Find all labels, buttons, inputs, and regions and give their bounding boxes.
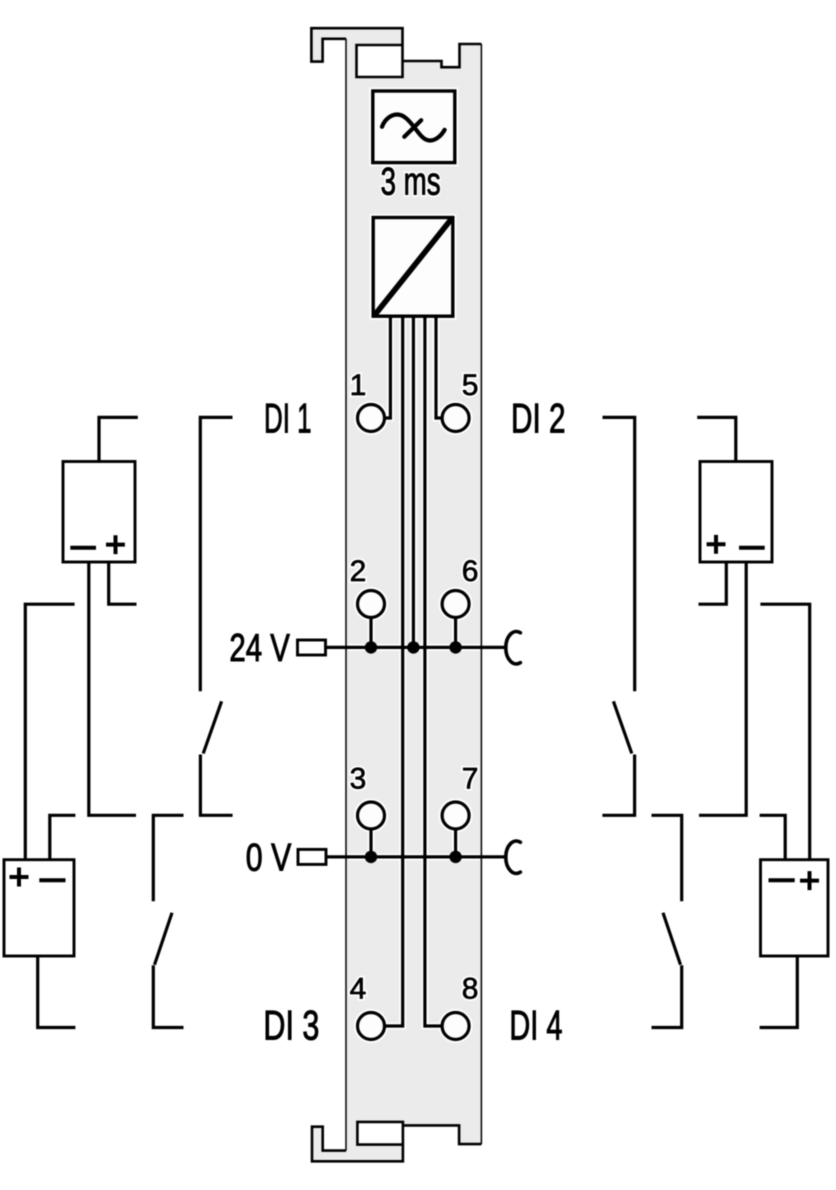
wire: isolation box to 24V rail junction xyxy=(412,315,415,647)
0V terminal box xyxy=(298,849,326,864)
junction dot on 24V rail xyxy=(449,641,461,653)
wire: isolation box to contact 8 xyxy=(425,315,442,1026)
contact point 5 xyxy=(442,405,469,432)
battery B3 (right upper supply) xyxy=(700,462,772,563)
svg-text:7: 7 xyxy=(462,763,479,796)
svg-text:4: 4 xyxy=(350,973,367,1006)
svg-text:DI 1: DI 1 xyxy=(264,394,312,441)
wire: DI1 switch branch upper xyxy=(200,417,232,691)
wire: B2 bottom to DI3-row stub xyxy=(38,956,76,1028)
svg-text:DI 2: DI 2 xyxy=(511,394,566,441)
battery B3 plus sign xyxy=(707,535,726,554)
filter box (input filter icon) xyxy=(373,91,455,163)
contact point 8 xyxy=(442,1013,469,1040)
wire: B3 minus down to 0V-row stub xyxy=(699,562,746,815)
wire: DI1 switch branch lower xyxy=(200,755,232,816)
battery B1 plus sign xyxy=(106,535,125,554)
module body (DIN-rail I/O module outline, gray strip) xyxy=(311,28,481,1161)
contact point 6 xyxy=(442,591,469,618)
battery B2 plus sign xyxy=(10,868,29,887)
wire: left DI1 stub to battery B1 plus terminal xyxy=(99,417,138,461)
battery B2 minus sign xyxy=(39,878,65,882)
module top contour (DIN-rail latch profile) xyxy=(311,28,481,77)
module left edge xyxy=(345,39,347,1151)
24V rail open socket arc xyxy=(506,632,521,664)
wire casings (white halo around wires on gray strip) xyxy=(385,315,390,418)
wire: isolation box to contact 1 xyxy=(385,315,390,418)
module bottom contour (DIN-rail latch profile) xyxy=(312,1122,481,1161)
svg-text:3 ms: 3 ms xyxy=(381,161,441,204)
wire: DI4 switch branch lower xyxy=(652,965,682,1027)
stub contact 2 to 24V rail xyxy=(369,617,372,648)
svg-text:24 V: 24 V xyxy=(229,627,290,670)
wire: 0V-row stub into B2 top xyxy=(50,815,76,859)
filter slash stroke xyxy=(404,120,421,137)
svg-text:6: 6 xyxy=(462,555,479,588)
wire: right DI2 stub to battery B3 plus terminal xyxy=(697,417,736,461)
module right edge xyxy=(480,44,482,1144)
wire: 0V-row stub into B4 top xyxy=(760,815,786,859)
junction dot on 24V rail xyxy=(365,641,377,653)
switch S2 blade xyxy=(155,913,173,965)
stub contact 7 to 0V rail xyxy=(454,828,457,857)
contact point 4 xyxy=(358,1013,385,1040)
svg-text:5: 5 xyxy=(462,369,479,402)
wire: isolation box to contact 5 xyxy=(436,315,442,418)
battery B3 minus sign xyxy=(739,546,765,550)
24V rail wire xyxy=(326,646,506,649)
stub contact 3 to 0V rail xyxy=(369,828,372,857)
galvanic isolation box U1 xyxy=(373,218,453,317)
wire: B1 plus down to 24V-row stub xyxy=(109,562,137,604)
24V terminal box xyxy=(298,640,326,655)
battery B4 minus sign xyxy=(769,878,795,882)
stub contact 6 to 24V rail xyxy=(454,617,457,648)
filter sine symbol xyxy=(382,114,445,140)
switch S4 blade xyxy=(663,913,681,965)
wire: right long drop to battery B4 xyxy=(760,604,809,860)
wire: DI4 switch branch upper xyxy=(652,815,682,901)
wire: DI3 switch branch upper xyxy=(153,815,183,901)
contact point 1 xyxy=(358,405,385,432)
battery B4 (right lower supply) xyxy=(761,860,829,956)
battery B1 (left upper supply) xyxy=(63,462,135,563)
battery B2 (left lower supply) xyxy=(4,860,74,956)
wire: DI2 switch branch upper xyxy=(603,417,635,691)
wire: left long drop to battery B2 xyxy=(25,604,74,860)
junction dot on 0V rail xyxy=(449,851,461,863)
svg-text:3: 3 xyxy=(350,763,367,796)
wire: B4 bottom to DI4-row stub xyxy=(760,956,798,1028)
0V rail wire xyxy=(326,855,506,858)
wire: DI2 switch branch lower xyxy=(602,755,634,816)
svg-text:2: 2 xyxy=(350,555,367,588)
wire: DI3 switch branch lower xyxy=(153,965,183,1027)
contact point 2 xyxy=(358,591,385,618)
svg-text:0 V: 0 V xyxy=(246,836,291,879)
switch S3 blade xyxy=(613,701,631,753)
isolation diagonal stroke xyxy=(375,219,452,315)
svg-text:8: 8 xyxy=(462,973,479,1006)
wire: isolation box to contact 4 xyxy=(385,315,403,1026)
svg-text:DI 3: DI 3 xyxy=(263,1001,319,1048)
wire: B3 plus down to 24V-row stub xyxy=(699,562,727,604)
battery B4 plus sign xyxy=(800,871,819,890)
svg-text:1: 1 xyxy=(350,369,367,402)
wire: B1 minus down to 0V-row stub xyxy=(89,562,136,815)
contact point 3 xyxy=(358,802,385,829)
0V rail open socket arc xyxy=(506,841,521,873)
junction dot on 0V rail xyxy=(365,851,377,863)
junction dot on 24V rail xyxy=(407,641,419,653)
battery B1 minus sign xyxy=(70,546,96,550)
switch S1 blade xyxy=(203,701,221,753)
svg-text:DI 4: DI 4 xyxy=(509,1001,562,1048)
contact point 7 xyxy=(442,802,469,829)
